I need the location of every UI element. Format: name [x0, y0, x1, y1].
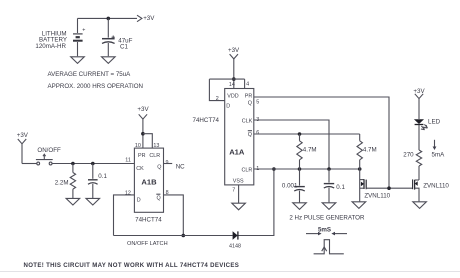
svg-text:AVERAGE CURRENT = 75uA: AVERAGE CURRENT = 75uA [48, 71, 132, 78]
svg-text:7: 7 [232, 188, 235, 194]
A1A Qbar label [248, 131, 252, 138]
junction 2.2M [71, 162, 75, 166]
svg-text:CK: CK [136, 166, 144, 172]
transistor Q1 ZVNL110 [360, 169, 367, 201]
svg-text:ZVNL110: ZVNL110 [423, 183, 449, 190]
svg-text:6: 6 [256, 130, 259, 136]
junction CLR node left [272, 167, 276, 171]
junction 0.1 [91, 162, 95, 166]
ground C1 [102, 57, 116, 64]
ground C2 [86, 198, 100, 205]
capacitor C3 0.001 [294, 169, 305, 202]
junction R3 top [298, 132, 302, 136]
battery B1 [73, 18, 85, 56]
label 5mA current arrow [432, 140, 446, 159]
svg-text:A1B: A1B [141, 178, 157, 187]
svg-text:VSS: VSS [233, 178, 244, 184]
ground C4 [322, 203, 336, 210]
svg-text:5: 5 [256, 99, 259, 105]
wire battery top rail [78, 17, 138, 19]
node +3V LED supply [413, 88, 425, 119]
svg-text:LED: LED [428, 119, 441, 126]
capacitor C2 0.1 [88, 164, 98, 199]
diode D2 LED [414, 119, 428, 129]
wire A1A D tie [209, 79, 224, 101]
dimension arrow right [331, 232, 347, 236]
svg-text:+3V: +3V [228, 47, 240, 54]
svg-text:Q: Q [157, 164, 161, 170]
ground R1 [66, 198, 80, 205]
svg-text:Q: Q [248, 101, 252, 107]
op A1B flip-flop box [134, 148, 163, 212]
pulse waveform [314, 240, 344, 254]
svg-text:4148: 4148 [229, 244, 241, 250]
switch S1 ON/OFF pushbutton [36, 154, 53, 165]
svg-text:+3V: +3V [143, 15, 155, 22]
svg-text:9: 9 [166, 160, 169, 166]
wire pin 8 down [164, 195, 184, 236]
svg-text:0.1: 0.1 [98, 173, 107, 180]
svg-text:PR: PR [245, 93, 253, 99]
svg-text:2: 2 [216, 96, 219, 102]
svg-text:+3V: +3V [17, 132, 29, 139]
junction A1A supply split [232, 77, 236, 81]
junction rail/C1 [107, 17, 111, 21]
wire pin 9 NC stub [164, 163, 173, 165]
svg-text:120mA-HR: 120mA-HR [35, 43, 66, 50]
junction A1B supply split [141, 132, 145, 136]
junction pin5 wire [387, 186, 391, 190]
svg-text:4: 4 [246, 81, 249, 87]
svg-text:CLR: CLR [242, 167, 253, 173]
wire Q1 to Q2 gate [366, 187, 412, 189]
node +3V A1A supply [228, 47, 240, 88]
ground A1A [232, 203, 246, 210]
capacitor C4 0.1 [324, 169, 334, 202]
svg-text:VDD: VDD [227, 93, 238, 99]
wire pin 7 [238, 185, 240, 203]
svg-text:ZVNL110: ZVNL110 [364, 192, 390, 199]
svg-text:ON/OFF LATCH: ON/OFF LATCH [127, 241, 168, 247]
svg-text:APPROX. 2000 HRS OPERATION: APPROX. 2000 HRS OPERATION [48, 83, 143, 90]
node +3V left supply [17, 132, 29, 164]
svg-text:4.7M: 4.7M [303, 146, 317, 153]
wire diode to CLR node [239, 169, 274, 236]
resistor R3 4.7M [297, 134, 302, 169]
junction latch wire [182, 234, 186, 238]
svg-text:14: 14 [229, 82, 235, 88]
ground C3 [293, 203, 307, 210]
junction R3 bottom [298, 167, 302, 171]
ground battery [71, 57, 85, 64]
wire pin 6 Qbar [254, 133, 360, 135]
op A1A flip-flop box [225, 89, 254, 185]
svg-text:5mA: 5mA [432, 152, 446, 159]
resistor R1 2.2M [70, 164, 75, 199]
svg-text:5mS: 5mS [318, 226, 331, 233]
svg-text:D: D [226, 104, 230, 110]
svg-text:PR: PR [138, 153, 146, 159]
svg-text:74HCT74: 74HCT74 [135, 217, 162, 224]
ground Q1 [352, 202, 366, 209]
wire switch to A1B CK [52, 163, 134, 165]
svg-text:NOTE! THIS CIRCUIT MAY NOT WO: NOTE! THIS CIRCUIT MAY NOT WORK WITH ALL… [24, 262, 240, 269]
resistor R4 4.7M [357, 134, 362, 169]
wire latch bottom [114, 235, 233, 237]
svg-text:ON/OFF: ON/OFF [37, 147, 61, 154]
junction R4 bottom [358, 167, 362, 171]
svg-text:D: D [137, 197, 141, 203]
capacitor C1 [102, 18, 115, 56]
svg-text:A1A: A1A [229, 148, 245, 157]
svg-text:10: 10 [135, 143, 141, 149]
wire LED to R5 [418, 125, 420, 150]
svg-text:2.2M: 2.2M [55, 179, 69, 186]
svg-text:11: 11 [125, 157, 131, 163]
svg-text:4.7M: 4.7M [363, 146, 377, 153]
svg-text:CLK: CLK [242, 118, 253, 124]
wire pin 3 CLK [254, 120, 329, 169]
wire switch input [22, 163, 37, 165]
A1B Qbar label [156, 194, 160, 201]
wire pin 1 CLR [254, 168, 360, 170]
junction C3 clk [327, 167, 331, 171]
wire pin 12 loop [114, 195, 135, 236]
diode D1 4148 [233, 231, 238, 240]
svg-text:+3V: +3V [137, 106, 149, 113]
divider line [0, 271, 460, 273]
svg-text:Q: Q [157, 196, 161, 202]
wire A1A PR tie [244, 79, 246, 88]
svg-text:74HCT74: 74HCT74 [193, 117, 220, 124]
svg-text:2 Hz PULSE GENERATOR: 2 Hz PULSE GENERATOR [289, 214, 365, 221]
node +3V A1B supply [137, 106, 149, 148]
transistor Q2 ZVNL110 [413, 179, 419, 201]
svg-text:+: + [82, 27, 85, 33]
resistor R5 270 [416, 150, 421, 180]
dimension arrow left [306, 232, 322, 236]
svg-text:Q: Q [248, 132, 252, 138]
svg-text:270: 270 [403, 152, 414, 159]
wire pin 5 Q [254, 97, 389, 188]
node +3V rail arrow [137, 15, 142, 22]
wire A1B CLR supply [143, 134, 152, 148]
svg-text:NC: NC [176, 163, 185, 170]
svg-text:C1: C1 [120, 44, 128, 51]
wire A1A supply rail [209, 78, 244, 80]
svg-text:0.1: 0.1 [336, 184, 345, 191]
ground Q2 [413, 202, 427, 209]
svg-text:12: 12 [125, 191, 131, 197]
svg-text:CLR: CLR [149, 153, 160, 159]
svg-text:0.001: 0.001 [282, 182, 298, 189]
svg-text:13: 13 [153, 143, 159, 149]
